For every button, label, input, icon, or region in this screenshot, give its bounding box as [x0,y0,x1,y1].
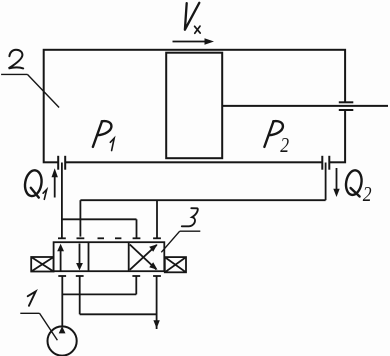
valve right position: crossed arrow 1 (to upper right) [130,245,157,270]
solenoid right box [165,257,186,272]
valve right position: crossed arrow 2 (to lower right) [130,245,157,270]
neutral position dash 1 [98,237,105,239]
wire: pipe A branch horizontal [62,218,137,220]
valve port tick bottom 1 [58,275,66,277]
rod gland tick (lower) [339,109,354,111]
valve port tick bottom 2 [76,275,84,277]
piston [166,53,222,159]
valve port tick bottom 4 [153,275,161,277]
valve port tick top 1 [58,237,66,239]
svg-text:2: 2 [280,135,289,158]
wire: pipe B branch down to valve port 4 [156,200,158,237]
label 2 (cylinder) [9,50,24,69]
wire: pressure branch up to valve port 3 [135,276,137,294]
neutral position dash 2 [115,237,121,239]
label Vx [185,3,200,34]
svg-text:2: 2 [363,183,372,206]
wire: pipe B down to valve port 2 [79,200,81,236]
left port seal tick (left) [57,156,59,170]
label 1 (pump) [28,291,36,305]
label P2 [264,121,283,147]
valve left position: down arrow [79,244,81,264]
valve port tick top 2 [77,237,85,239]
leader line for label 2 [1,74,59,107]
solenoid left box [31,257,53,272]
wire: pipe B long horizontal [80,199,325,201]
wire: pressure branch horizontal [62,293,136,295]
wire: pipe A branch down to valve port 3 [136,219,138,237]
pump outlet arrowhead [59,326,66,333]
valve 3 body [31,242,186,272]
valve port tick top 4 [153,237,161,239]
gap in bottom wall for right port [323,160,329,164]
leader line for label 1 [20,313,57,340]
label P1 [93,121,112,147]
label Q2 [344,169,363,196]
valve divider left [88,242,90,271]
rod gland tick (upper) [339,101,354,103]
velocity arrow Vx [173,38,215,45]
gap in right wall for rod [343,103,348,110]
valve divider right [128,242,130,271]
flow arrow Q2 (down) [336,168,338,190]
label 3 (valve) [182,208,198,226]
valve port tick bottom 3 [132,275,140,277]
cylinder body (outer rectangle) [44,50,345,163]
right port seal tick (left) [321,156,323,170]
gap in bottom wall for left port [59,160,65,164]
wire: tank line from valve port 2 down [79,276,81,314]
valve port tick top 3 [133,237,141,239]
right port seal tick (right) [328,156,330,170]
wire: pump riser to valve port 1 [61,276,63,327]
left port seal tick (right) [64,156,66,170]
valve left position: up arrow [60,250,62,271]
leader line for label 3 [161,231,200,252]
wire: tank line from valve port 4 down to drain [156,276,158,329]
pump 1 (circle) [48,326,77,355]
flow arrow Q1 (up) [54,176,56,198]
label Q1 [23,169,43,198]
wire: pipe A from cylinder left port down to valve port 1 [61,163,63,239]
drain arrowhead [153,320,159,328]
wire: tank line horizontal [80,313,157,315]
piston rod [222,105,388,107]
wire: pipe B from cylinder right port down [325,163,327,201]
